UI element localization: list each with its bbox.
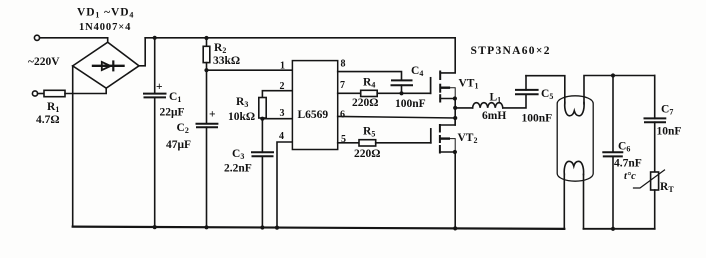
- svg-text:8: 8: [341, 59, 346, 70]
- capacitor C4: [392, 79, 412, 81]
- wire top terminal to bridge top vertex: [40, 38, 108, 42]
- svg-text:STP3NA60×2: STP3NA60×2: [471, 45, 551, 57]
- resistor R1: [38, 93, 44, 95]
- node dot midpoint to L1: [453, 106, 457, 110]
- wire filament return line: [584, 228, 655, 230]
- wire lamp bottom-right lead down: [583, 175, 585, 229]
- svg-text:100nF: 100nF: [522, 113, 553, 125]
- svg-text:3: 3: [280, 108, 285, 119]
- bridge rectifier diamond: [73, 42, 139, 88]
- svg-text:22μF: 22μF: [160, 107, 185, 119]
- svg-text:2: 2: [280, 81, 285, 92]
- svg-text:100nF: 100nF: [395, 98, 426, 110]
- svg-text:10kΩ: 10kΩ: [228, 111, 255, 123]
- node dot pin3/R3/C3: [260, 117, 264, 121]
- svg-text:7: 7: [340, 80, 345, 91]
- wire pin7: [338, 92, 361, 94]
- node dot VT2 source: [453, 150, 457, 154]
- wire half-bridge midpoint: [454, 99, 456, 126]
- svg-text:4: 4: [279, 131, 284, 142]
- wire R4 to VT1 gate: [377, 92, 430, 94]
- node dot C2 bottom on ground rail: [204, 225, 208, 229]
- label STP3NA60x2: [471, 45, 551, 57]
- node dot C3 bottom on ground rail: [260, 225, 264, 229]
- svg-text:~220V: ~220V: [28, 56, 60, 68]
- wire C5 to lamp top-left: [526, 76, 565, 104]
- diode symbol inside bridge: [93, 65, 124, 67]
- svg-text:+: +: [156, 81, 163, 93]
- wire bridge minus down to bottom rail: [72, 66, 74, 227]
- capacitor C7: [654, 76, 656, 119]
- svg-text:4.7nF: 4.7nF: [614, 158, 642, 170]
- capacitor C1: [154, 38, 156, 94]
- wire lamp bottom-left lead to rail: [563, 174, 565, 229]
- capacitor C2: [197, 123, 218, 125]
- terminal input top: [34, 35, 39, 40]
- transistor Q1 VT1: [430, 78, 432, 94]
- wire top rail: [145, 37, 455, 39]
- capacitor C6: [612, 76, 614, 153]
- svg-text:6: 6: [340, 109, 345, 120]
- svg-text:47μF: 47μF: [166, 139, 191, 151]
- transistor Q2 VT2: [430, 129, 432, 143]
- wire pin6 to midpoint: [338, 116, 456, 118]
- svg-text:4.7Ω: 4.7Ω: [36, 114, 60, 126]
- fluorescent lamp tube: [557, 96, 593, 181]
- node dot VT2 source at ground rail: [453, 226, 457, 230]
- wire pin4 to ground: [277, 142, 292, 228]
- svg-text:6mH: 6mH: [482, 110, 506, 122]
- wire pin5: [338, 142, 359, 144]
- node pin1/R2/C2: [204, 68, 208, 72]
- svg-text:33kΩ: 33kΩ: [213, 55, 240, 67]
- wire R5 to VT2 gate: [376, 142, 431, 144]
- capacitor C5: [516, 93, 538, 95]
- wire lamp top-right up and right: [584, 76, 655, 104]
- thermistor RT: [651, 172, 659, 190]
- lamp top filament: [565, 103, 584, 116]
- wire bridge plus to top rail: [139, 38, 145, 66]
- svg-text:1: 1: [280, 60, 285, 71]
- IC U1 L6569: [292, 61, 337, 150]
- wire pin3: [262, 118, 292, 120]
- resistor R3: [259, 98, 266, 119]
- label VD1~VD4: [77, 7, 134, 34]
- svg-text:1N4007×4: 1N4007×4: [79, 22, 131, 33]
- wire ground rail: [73, 227, 565, 229]
- wire pin2 to R3: [262, 91, 292, 98]
- node dot midpoint pin6: [453, 116, 457, 120]
- wire VT2 source to ground: [454, 152, 456, 228]
- svg-text:VD1 ~VD4: VD1 ~VD4: [77, 7, 134, 20]
- svg-text:t°c: t°c: [624, 171, 636, 182]
- svg-text:220Ω: 220Ω: [352, 97, 378, 109]
- node dot C4/R4 junction: [399, 91, 403, 95]
- svg-text:2.2nF: 2.2nF: [224, 163, 252, 175]
- svg-text:220Ω: 220Ω: [354, 148, 380, 160]
- svg-text:+: +: [209, 109, 216, 121]
- wire R1 to bridge bottom vertex: [65, 88, 106, 93]
- node dot R2 top rail: [204, 36, 208, 40]
- node dot VT1 source: [453, 96, 457, 100]
- wire pin1: [207, 69, 293, 71]
- wire pin8 to C4: [338, 72, 402, 80]
- label ~220V: [28, 56, 60, 68]
- svg-text:L6569: L6569: [298, 109, 329, 121]
- node dot C6 top: [611, 73, 615, 77]
- terminal input bottom: [32, 91, 37, 96]
- node dot C1 top: [153, 36, 157, 40]
- node dot C6 bottom on filament line: [611, 227, 615, 231]
- lamp bottom filament: [564, 161, 583, 174]
- resistor R2: [206, 38, 208, 47]
- capacitor C3: [261, 119, 263, 153]
- node dot C1 bottom on ground rail: [153, 225, 157, 229]
- resistor R5: [359, 140, 376, 146]
- inductor L1: [455, 107, 472, 109]
- node dot pin4 ground: [275, 226, 279, 230]
- svg-text:10nF: 10nF: [657, 126, 682, 138]
- resistor R4: [361, 90, 378, 96]
